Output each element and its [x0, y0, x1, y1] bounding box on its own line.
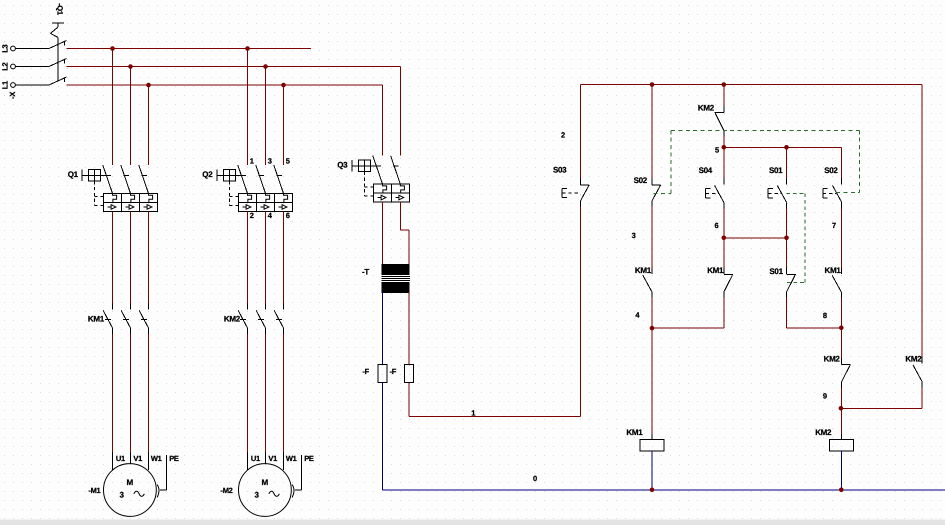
coil KM2 label [815, 428, 832, 437]
svg-text:S04: S04 [699, 166, 713, 175]
svg-text:W1: W1 [286, 454, 297, 463]
wire branch S03 upper [580, 85, 582, 180]
svg-text:S02: S02 [634, 176, 648, 185]
wire S01 lower to node 8 [787, 298, 842, 328]
svg-text:U1: U1 [251, 454, 260, 463]
node 6 label [715, 221, 719, 230]
auxiliary contact KM1 (branch B) label [635, 266, 652, 275]
wire node 5 horizontal [724, 146, 842, 148]
contact S01 (lower) label [769, 267, 783, 276]
wire node 5 to S04 [723, 147, 725, 179]
junction dot top bus at KM2 branch [722, 82, 727, 87]
window bottom edge strip [0, 520, 945, 525]
circuit breaker Q2 manual operator [202, 170, 235, 182]
svg-text:-F: -F [362, 367, 369, 376]
motor -M2 terminal labels U1 V1 W1 PE [251, 454, 314, 463]
auxiliary contact KM1 (branch C) contact [724, 268, 733, 299]
junction dot coil KM1 at neutral [650, 488, 655, 493]
pushbutton S01 (NO) label [769, 166, 783, 175]
svg-text:0: 0 [533, 474, 537, 483]
wire L3 bus [67, 48, 311, 50]
wire node 8 to KM2 aux [840, 328, 842, 359]
node 3 label [632, 231, 636, 240]
node 5 junction dot [722, 145, 727, 150]
wire far right branch from top bus [921, 85, 923, 359]
circuit breaker Q1 trip unit box [103, 193, 157, 215]
contactor KM2 main contacts [224, 304, 284, 335]
svg-text:5: 5 [286, 157, 290, 166]
svg-text:KM1: KM1 [635, 266, 652, 275]
wire transformer secondary right down [408, 292, 410, 364]
motor -M1 PE conductor and clamp [157, 455, 166, 498]
node 8 label [823, 311, 827, 320]
svg-text:Q3: Q3 [337, 160, 348, 169]
terminal -X terminal L2 [0, 63, 15, 71]
wire S01 branch upper [786, 147, 788, 179]
node 8 junction dot [839, 326, 844, 331]
wire node 9 to coil KM2 [840, 408, 842, 439]
wire fuse right to control node 1 [408, 382, 410, 416]
node 6 junction dot [722, 236, 727, 241]
node 9 junction dot [839, 406, 844, 411]
svg-text:S02: S02 [824, 166, 838, 175]
svg-text:1: 1 [250, 157, 254, 166]
auxiliary contact KM2 (far right) label [905, 354, 922, 363]
wire fuse left to neutral bus [382, 382, 384, 490]
svg-text:S03: S03 [553, 166, 567, 175]
svg-text:L1: L1 [0, 81, 9, 89]
circuit breaker Q2 operator linkage (dashed) [230, 181, 239, 205]
disconnect -Q1 pole L3: blade and fixed contact [49, 41, 67, 49]
svg-text:KM2: KM2 [224, 315, 241, 324]
svg-text:2: 2 [561, 131, 565, 140]
wire coil KM1 to neutral [651, 451, 653, 490]
junction dots on phase buses at Q1 taps [110, 46, 151, 87]
svg-text:PE: PE [304, 454, 314, 463]
svg-text:KM1: KM1 [707, 266, 724, 275]
svg-text:-X: -X [8, 92, 17, 99]
svg-text:8: 8 [823, 311, 827, 320]
svg-text:PE: PE [169, 454, 179, 463]
circuit breaker Q3 operator linkage (dashed) [365, 172, 374, 196]
node 7 label [832, 221, 836, 230]
pushbutton S02 (left, NC) label [634, 176, 648, 185]
svg-text:Q2: Q2 [202, 170, 213, 179]
wire coil KM2 to neutral [840, 451, 842, 490]
svg-text:2: 2 [250, 211, 254, 220]
svg-text:7: 7 [832, 221, 836, 230]
svg-text:V1: V1 [133, 454, 142, 463]
motor -M2 designator label [221, 486, 233, 495]
svg-text:3: 3 [632, 231, 636, 240]
wire transformer secondary left (neutral) down [382, 292, 384, 364]
wire L1 drop to Q3 pole 1 [382, 85, 384, 156]
pushbutton S02 (right) actuator [823, 189, 836, 198]
contact S01 (lower) contact [787, 268, 796, 299]
node 5 label [715, 146, 719, 155]
node 4 junction dot [650, 326, 655, 331]
pushbutton S03 (NC) contact [581, 178, 590, 207]
terminal -X terminal L3 [0, 45, 15, 53]
coil KM2 [829, 440, 853, 451]
breaker Q2 pin numbers 1 3 5 [250, 157, 290, 166]
fuse -F left [362, 364, 387, 382]
circuit breaker Q1 operator linkage (dashed) [95, 181, 104, 205]
svg-text:KM1: KM1 [88, 315, 105, 324]
svg-text:KM2: KM2 [905, 354, 922, 363]
pushbutton S03 (NC) label [553, 166, 567, 175]
svg-text:KM1: KM1 [825, 266, 842, 275]
pushbutton S03 actuator [562, 188, 580, 197]
wire L1 bus [67, 84, 383, 86]
transformer -T primary winding bar [382, 264, 409, 274]
wire S01 to node 6 line [786, 208, 788, 238]
svg-text:V1: V1 [268, 454, 277, 463]
wire branch B upper [651, 85, 653, 180]
svg-text:Q1: Q1 [68, 170, 79, 179]
disconnect -Q1 pole L1: blade and fixed contact [49, 77, 67, 85]
junction dot node 5 at S01 branch [784, 145, 789, 150]
svg-text:-M1: -M1 [88, 486, 100, 495]
transformer -T label [362, 267, 369, 276]
wire Q3 pole2 output jog to transformer [400, 202, 409, 264]
svg-text:-M2: -M2 [221, 486, 233, 495]
transformer -T core lines [382, 277, 411, 281]
pushbutton S04 (NO start) label [699, 166, 713, 175]
wire node 5 corner down to S02 right [841, 147, 843, 179]
disconnect switch -Q1 label [56, 3, 65, 15]
pushbutton S02 (right) label [824, 166, 838, 175]
node 9 label [823, 392, 827, 401]
wire far right branch to node 9 [841, 388, 922, 409]
disconnect -Q1 pole L2: blade and fixed contact [49, 59, 67, 67]
circuit breaker Q2 pole blades [236, 165, 284, 193]
terminal strip -X label [8, 92, 17, 99]
svg-text:KM2: KM2 [815, 428, 832, 437]
wire node 1 horizontal [409, 416, 580, 418]
circuit breaker Q3 manual operator [337, 160, 370, 172]
svg-text:U1: U1 [116, 454, 125, 463]
wire branch C upper [723, 85, 725, 107]
junction dot top bus at KM1 branch [650, 82, 655, 87]
circuit breaker Q2 trip unit box [238, 193, 292, 215]
motor -M1 designator label [88, 486, 100, 495]
wire drops L3/L2/L1 to Q2 [248, 49, 284, 166]
motor -M1 terminal labels U1 V1 W1 PE [116, 454, 179, 463]
wire drops L3/L2/L1 to Q1 [113, 49, 149, 166]
terminal -X terminal L1 [0, 81, 15, 89]
wire S04 to node 6 [723, 208, 725, 238]
wire L2 bus [67, 66, 401, 68]
fuse -F right [390, 364, 414, 382]
svg-text:9: 9 [823, 392, 827, 401]
svg-text:3: 3 [268, 157, 272, 166]
disconnect switch -Q1 handle and linkage [50, 23, 64, 81]
contactor KM1 main contacts [88, 304, 149, 335]
circuit breaker Q1 pole blades [101, 165, 149, 193]
circuit breaker Q1 manual operator [68, 170, 101, 182]
svg-text:M: M [127, 478, 134, 487]
auxiliary contact KM2 (far right) contact [913, 357, 922, 388]
disconnect -Q1 pole L3: lead wire [15, 48, 49, 50]
node 1 label [471, 409, 475, 418]
mechanical linkage S01 contacts (dashed) [787, 193, 806, 282]
wire branch S03 lower [580, 207, 582, 417]
node 0 label [533, 474, 537, 483]
junction dot coil KM2 at neutral [839, 488, 844, 493]
motor -M2 PE conductor and clamp [292, 455, 301, 498]
breaker Q2 pin numbers 2 4 6 [250, 211, 290, 220]
junction dot node 6 at S01 branch [784, 236, 789, 241]
wire node 4 to coil KM1 [651, 328, 653, 439]
wire S01 branch lower [786, 238, 788, 269]
wire L2 drop to Q3 pole 2 [399, 67, 401, 156]
pushbutton S02 (right) contact [833, 178, 842, 209]
motor -M2 body [239, 464, 292, 517]
svg-text:W1: W1 [151, 454, 162, 463]
auxiliary contact KM2 (NC interlock) contact [714, 107, 723, 137]
svg-text:-F: -F [390, 367, 397, 376]
svg-text:KM1: KM1 [626, 428, 643, 437]
svg-text:-Q1: -Q1 [56, 3, 65, 15]
pushbutton S02 (left, NC) contact [652, 178, 661, 207]
wires KM1 to motor M1 [113, 334, 149, 470]
auxiliary contact KM1 (branch B) NO contact [643, 268, 652, 299]
svg-text:M: M [262, 478, 269, 487]
circuit breaker Q3 pole blades [371, 156, 401, 184]
svg-text:L2: L2 [0, 63, 9, 71]
auxiliary contact KM1 (branch E) label [825, 266, 842, 275]
neutral bus 0 wire [383, 489, 945, 491]
node 2 label [561, 131, 565, 140]
wire node 6 horizontal to S01 branch [724, 237, 787, 239]
pushbutton S04 (NO start) contact [715, 178, 724, 209]
wires KM2 to motor M2 [248, 334, 284, 470]
pushbutton S04 actuator [706, 189, 719, 198]
svg-text:KM2: KM2 [824, 354, 841, 363]
svg-text:6: 6 [715, 221, 719, 230]
disconnect -Q1 pole L1: lead wire [15, 84, 49, 86]
disconnect -Q1 pole L2: lead wire [15, 66, 49, 68]
pushbutton S01 actuator [768, 189, 781, 198]
wire branch B to node 4 [651, 298, 653, 329]
auxiliary contact KM2 (NC interlock) label [698, 103, 715, 112]
wire KM2 interlock to node 5 [723, 137, 725, 148]
junction dots on phase buses at Q2 taps [245, 46, 286, 87]
wire branch B middle [651, 207, 653, 269]
control top bus wire [581, 84, 923, 86]
auxiliary contact KM1 (branch C) label [707, 266, 724, 275]
wire node 4 to KM1 parallel contact [652, 298, 724, 329]
wire KM1 aux to node 8 [840, 298, 842, 328]
svg-text:S01: S01 [769, 166, 783, 175]
wire node 6 to KM1 parallel contact [723, 238, 725, 269]
auxiliary contact KM2 (branch E) contact [841, 358, 850, 389]
coil KM1 label [626, 428, 643, 437]
auxiliary contact KM1 (branch E) contact [832, 268, 841, 299]
node 4 label [635, 311, 640, 320]
auxiliary contact KM2 (branch E) label [824, 354, 841, 363]
wires Q2 output to contactor KM2 poles [248, 211, 284, 303]
transformer -T secondary winding bar [382, 282, 409, 292]
wire S02 right to KM1 aux [841, 208, 843, 268]
svg-text:5: 5 [715, 146, 719, 155]
mechanical linkage KM2 to S02 interlock (dashed) [654, 130, 860, 193]
svg-text:KM2: KM2 [698, 103, 715, 112]
svg-text:L3: L3 [0, 45, 9, 53]
svg-text:S01: S01 [769, 267, 783, 276]
circuit breaker Q3 trip unit box [373, 184, 409, 206]
svg-text:1: 1 [471, 409, 475, 418]
svg-text:6: 6 [286, 211, 290, 220]
coil KM1 [640, 440, 664, 451]
wire Q3 pole1 output to transformer [382, 202, 384, 264]
wires Q1 output to contactor KM1 poles [113, 211, 149, 303]
pushbutton S01 (NO) contact [777, 178, 786, 209]
wire KM2 aux to node 9 [840, 388, 842, 408]
motor -M1 body [103, 464, 156, 517]
svg-text:-T: -T [362, 267, 369, 276]
